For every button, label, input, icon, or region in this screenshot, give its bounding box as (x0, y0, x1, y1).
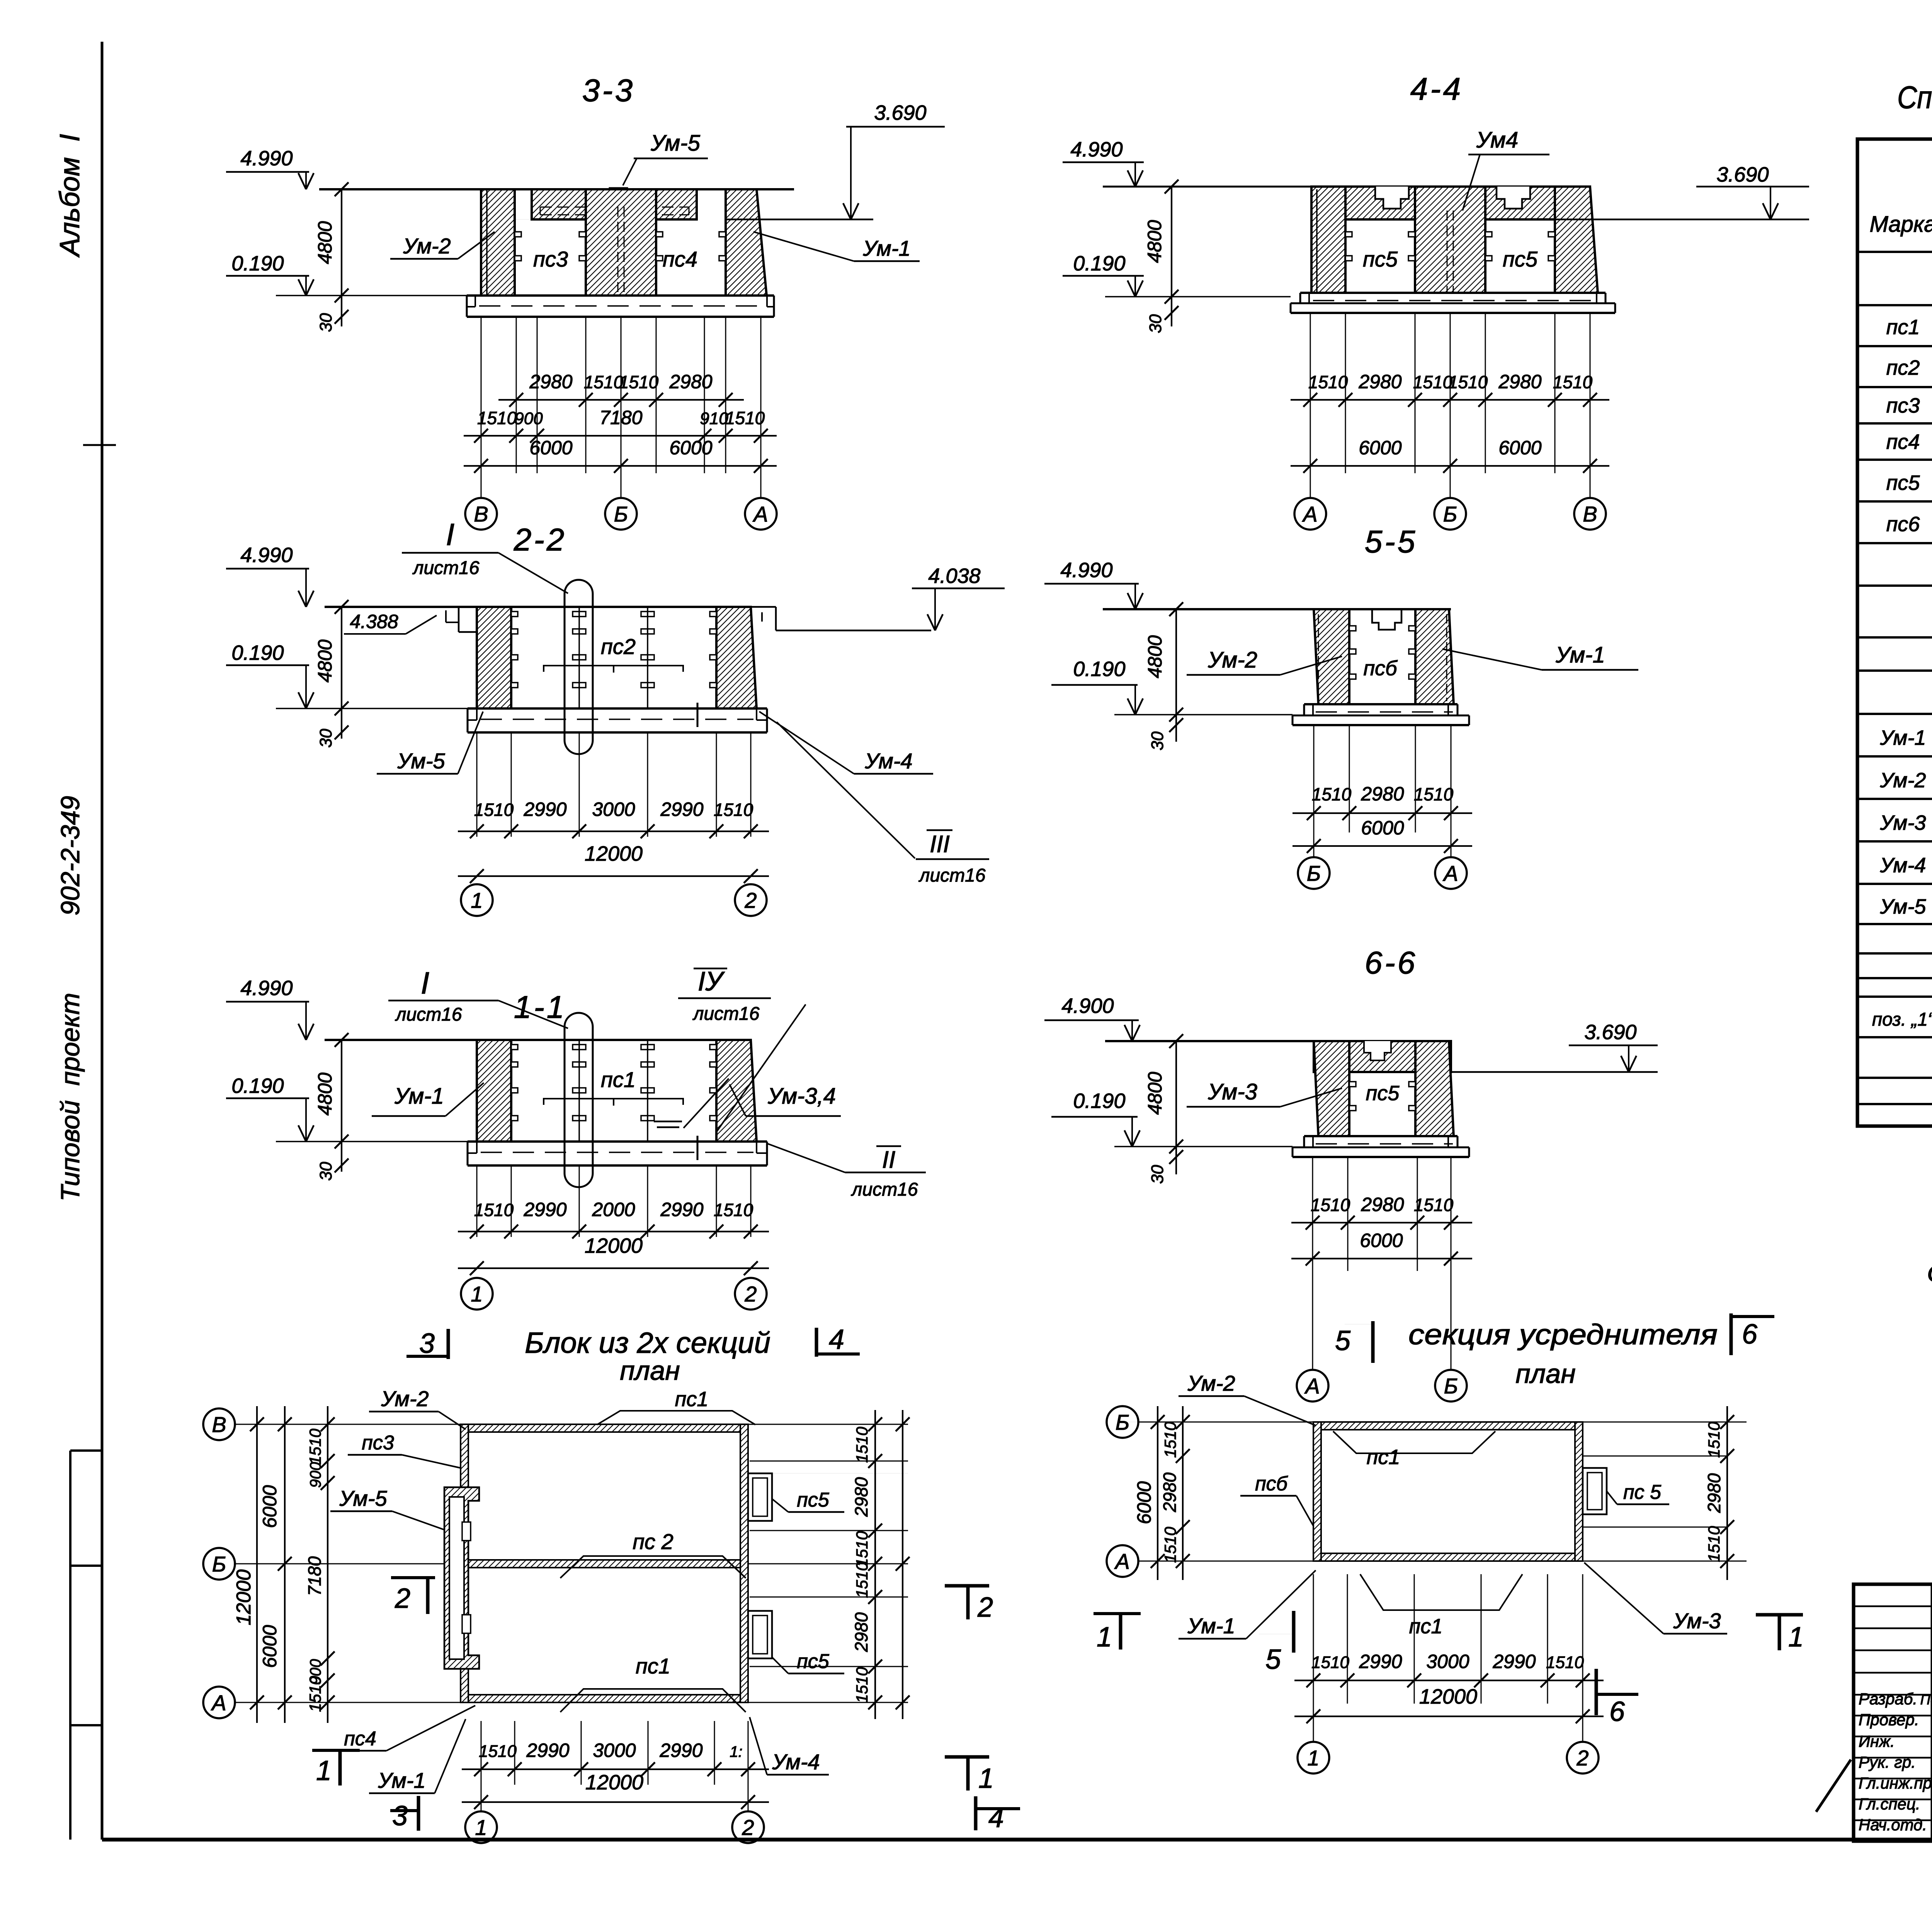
svg-text:В: В (212, 1412, 226, 1437)
svg-text:В: В (474, 502, 488, 526)
svg-text:2980: 2980 (1358, 371, 1401, 392)
section 6-6 right wall hatched trapezoid (1415, 1041, 1454, 1136)
axis circle V (plan 1) (203, 1408, 235, 1440)
svg-text:2000: 2000 (592, 1199, 635, 1220)
section mark T2 right (plan 1) (945, 1584, 989, 1588)
svg-text:6: 6 (1609, 1696, 1625, 1727)
svg-text:1510: 1510 (1161, 1422, 1179, 1458)
svg-text:1510: 1510 (1414, 1195, 1454, 1215)
svg-text:6000: 6000 (1361, 817, 1404, 839)
section 6-6 base slab (1304, 1135, 1458, 1137)
svg-text:2990: 2990 (660, 1199, 703, 1220)
svg-text:лист16: лист16 (850, 1179, 918, 1200)
section 3-3 top band dashed panel edge (540, 207, 689, 208)
axis circle V (4-4) (1574, 498, 1606, 530)
svg-text:лист16: лист16 (412, 558, 479, 578)
svg-text:1510: 1510 (1311, 1195, 1350, 1215)
section 4-4 dim chain 1510-2980-1510-1510-2980-1510 (1291, 399, 1609, 401)
svg-text:0.190: 0.190 (1073, 657, 1125, 681)
svg-text:Гл.спец.: Гл.спец. (1859, 1795, 1920, 1813)
plan 1 vertical dim 12000 left (256, 1406, 258, 1723)
svg-text:Ум-2: Ум-2 (1880, 769, 1926, 792)
svg-text:4.990: 4.990 (240, 977, 293, 1000)
plan 1 bottom wall ps1 hatched (468, 1695, 740, 1702)
svg-text:12000: 12000 (585, 1771, 643, 1794)
section 1-1 panel joints (578, 1040, 580, 1142)
section 1-1 left wall hatched (477, 1040, 511, 1142)
svg-text:6-6: 6-6 (1365, 945, 1418, 980)
plan 2 left wall hatched (1313, 1422, 1321, 1561)
svg-text:Гл.инж.пр.: Гл.инж.пр. (1859, 1774, 1932, 1792)
stray slash left of title block (1816, 1760, 1851, 1812)
svg-text:0.190: 0.190 (1073, 252, 1125, 275)
section 5-5 base slab (1304, 703, 1458, 705)
svg-text:5: 5 (1335, 1325, 1351, 1356)
svg-text:4.038: 4.038 (928, 564, 980, 588)
section 4-4 center wall hatched (1415, 187, 1485, 293)
svg-text:пс5: пс5 (1366, 1082, 1400, 1105)
svg-text:12000: 12000 (585, 1234, 643, 1257)
plan 2 right extension lines (1583, 1456, 1727, 1457)
svg-text:Ум-1: Ум-1 (378, 1768, 425, 1792)
section 6-6 extension lines below (1312, 1158, 1313, 1271)
svg-text:Ум-3,4: Ум-3,4 (767, 1084, 836, 1109)
svg-text:6000: 6000 (1359, 437, 1401, 459)
svg-text:пс3: пс3 (1886, 394, 1920, 417)
svg-text:план: план (620, 1356, 680, 1386)
section 1-1 capsule detail oval (565, 1013, 593, 1187)
axis circle A (4-4) (1294, 498, 1326, 530)
svg-text:Б: Б (614, 502, 628, 526)
section 2-2 panel tabs (511, 612, 518, 617)
svg-text:2980: 2980 (1361, 1194, 1404, 1215)
svg-text:2980: 2980 (1160, 1472, 1180, 1512)
vertical dim 4800 (3-3) (341, 189, 342, 296)
section 2-2 right wall hatched trapezoid (716, 607, 757, 708)
section 4-4 left wall hatched (1311, 187, 1345, 293)
svg-text:Ум-3: Ум-3 (1207, 1079, 1257, 1104)
section 1-1 ground line (276, 1141, 468, 1142)
svg-text:Марка: Марка (1869, 212, 1932, 237)
svg-text:2: 2 (395, 1583, 410, 1614)
svg-text:Б: Б (1443, 502, 1457, 526)
svg-text:3000: 3000 (592, 798, 635, 820)
svg-text:4800: 4800 (1144, 1072, 1166, 1114)
svg-text:2: 2 (1576, 1746, 1588, 1770)
svg-text:пс5: пс5 (1886, 471, 1920, 494)
svg-text:пс2: пс2 (1886, 356, 1920, 379)
svg-text:2980: 2980 (851, 1612, 871, 1652)
section mark T1 right (plan 1) (945, 1755, 989, 1759)
section 1-1 break mark (697, 1136, 699, 1160)
plan 2 right wall hatched (1575, 1422, 1583, 1561)
svg-text:1: 1 (1307, 1746, 1319, 1770)
svg-text:1510: 1510 (1413, 372, 1453, 392)
svg-text:7180: 7180 (304, 1556, 325, 1596)
svg-text:Ум-2: Ум-2 (381, 1386, 429, 1411)
svg-text:1510: 1510 (725, 408, 765, 428)
section 5-5 dim chain 1510-2980-1510 (1293, 812, 1472, 814)
svg-text:30: 30 (316, 313, 335, 332)
svg-text:пс5: пс5 (1503, 247, 1538, 271)
svg-text:пс3: пс3 (362, 1432, 394, 1454)
svg-text:2990: 2990 (659, 1740, 702, 1761)
svg-text:2: 2 (744, 888, 757, 912)
svg-text:1510: 1510 (619, 372, 659, 392)
svg-text:Блок из 2х секций: Блок из 2х секций (525, 1327, 770, 1359)
axis circle 2 (2-2) (735, 884, 767, 916)
section 3-3 dim chain 1510-900-7180-910-1510 (464, 435, 777, 437)
svg-text:3.690: 3.690 (874, 101, 926, 124)
svg-text:1510: 1510 (474, 800, 514, 820)
svg-text:30: 30 (1148, 731, 1167, 750)
section 3-3 extension lines below (481, 318, 482, 473)
svg-text:Б: Б (1444, 1374, 1458, 1398)
svg-text:1510: 1510 (1161, 1527, 1179, 1563)
section 4-4 top line (1103, 186, 1311, 188)
svg-text:900: 900 (307, 1462, 324, 1488)
svg-text:1: 1 (1097, 1622, 1112, 1653)
axis circle 2 (1-1) (735, 1278, 767, 1310)
svg-text:30: 30 (1146, 314, 1165, 333)
svg-text:Б: Б (1307, 861, 1321, 885)
left margin tick (83, 444, 116, 446)
section 4-4 body top band hatched (1311, 187, 1590, 219)
plan 1 axis line V (235, 1424, 906, 1425)
svg-text:0.190: 0.190 (1073, 1089, 1125, 1113)
section 2-2 left wall hatched (477, 607, 511, 708)
svg-text:А: А (1114, 1549, 1129, 1573)
svg-text:4.990: 4.990 (240, 544, 293, 567)
axis circle 1 (1-1) (461, 1278, 493, 1310)
svg-text:4800: 4800 (314, 221, 336, 264)
svg-text:3.690: 3.690 (1584, 1021, 1636, 1044)
plan 1 left chain 1510-900-7180-900-1510 (327, 1406, 328, 1723)
svg-text:Ум-3: Ум-3 (1673, 1609, 1721, 1633)
svg-text:IУ: IУ (698, 966, 725, 996)
axis circle A (3-3) (745, 498, 777, 530)
svg-text:Ум-1: Ум-1 (1555, 642, 1605, 668)
svg-text:12000: 12000 (585, 842, 643, 865)
svg-text:1: 1 (471, 888, 483, 912)
svg-text:0.190: 0.190 (231, 641, 284, 664)
svg-text:пс 2: пс 2 (633, 1529, 673, 1554)
axis circle 2 (plan 2) (1582, 1704, 1583, 1741)
section 4-4 center wall joint dashed (1447, 211, 1448, 292)
svg-text:2: 2 (977, 1592, 993, 1623)
plan 1 right chain ticks (874, 1410, 876, 1719)
axis circle B (3-3) (605, 498, 637, 530)
svg-text:1510: 1510 (1705, 1526, 1723, 1562)
svg-text:Ум-2: Ум-2 (403, 234, 451, 258)
svg-text:1:: 1: (730, 1743, 742, 1760)
section 1-1 top line (325, 1039, 751, 1041)
svg-text:1510: 1510 (1448, 372, 1488, 392)
section 2-2 break mark (697, 703, 699, 727)
svg-text:2980: 2980 (529, 371, 572, 392)
axis circle B (plan 2) (1107, 1406, 1138, 1438)
vertical dim 4800 (5-5) (1175, 609, 1177, 715)
svg-text:1510: 1510 (474, 1200, 514, 1220)
svg-text:4.900: 4.900 (1061, 994, 1114, 1018)
svg-text:Спецификация элементов к мар: Спецификация элементов к маркировочным с… (1897, 80, 1932, 115)
svg-text:4800: 4800 (1144, 220, 1165, 263)
svg-text:Ум-5: Ум-5 (397, 749, 445, 773)
section 4-4 top notch 2 (1497, 187, 1530, 209)
svg-text:2980: 2980 (669, 371, 712, 392)
svg-text:2980: 2980 (851, 1477, 871, 1517)
vertical dim 30 (1-1) (341, 1142, 342, 1172)
svg-text:4-4: 4-4 (1410, 71, 1463, 107)
svg-text:пс1: пс1 (1367, 1446, 1400, 1469)
plan 2 bottom extension lines (1313, 1574, 1314, 1704)
section 6-6 left wall hatched (1314, 1041, 1349, 1136)
svg-text:пс4: пс4 (663, 247, 697, 271)
svg-text:пс2: пс2 (601, 634, 636, 659)
spec table horizontal lines (1857, 251, 1932, 253)
section 2-2 capsule detail oval (565, 580, 593, 754)
svg-text:1: 1 (1788, 1622, 1804, 1653)
plan 1 axis line A (235, 1702, 906, 1703)
axis circle B (5-5) (1298, 857, 1330, 889)
svg-text:Ум-4: Ум-4 (1880, 854, 1926, 877)
svg-text:1510: 1510 (853, 1427, 871, 1463)
svg-text:4800: 4800 (314, 639, 336, 682)
svg-text:0.190: 0.190 (231, 1074, 284, 1097)
svg-text:1510: 1510 (1553, 372, 1593, 392)
svg-text:лист16: лист16 (692, 1004, 759, 1024)
axis circle 1 (plan 2) (1313, 1704, 1314, 1741)
plan 1 vertical dim 6000 6000 left (284, 1406, 286, 1723)
svg-text:6000: 6000 (259, 1625, 281, 1668)
section 3-3 top slab line (319, 188, 794, 190)
section 5-5 extension lines below (1313, 726, 1315, 832)
svg-text:1510: 1510 (853, 1667, 871, 1703)
section 4-4 base slab (1300, 292, 1605, 294)
plan 1 axis line B (235, 1563, 461, 1565)
svg-text:Ум4: Ум4 (1476, 127, 1518, 153)
section 3-3 panel tabs (515, 232, 521, 237)
svg-text:5: 5 (1265, 1644, 1281, 1675)
svg-text:1510: 1510 (1312, 784, 1352, 804)
svg-text:II: II (882, 1147, 895, 1173)
plan 2 right chain 1510-2980-1510 (1726, 1406, 1728, 1580)
axis circle A (plan 1) (203, 1687, 235, 1718)
axis circle A (plan 2) (1107, 1545, 1138, 1577)
svg-text:900: 900 (514, 409, 543, 428)
svg-text:Ум-1: Ум-1 (1880, 726, 1926, 749)
section 3-3 ground line 0.190 (276, 295, 467, 296)
svg-text:3000: 3000 (1426, 1651, 1469, 1672)
section 1-1 right wall hatched trapezoid (716, 1040, 757, 1142)
section 4-4 cells (1345, 219, 1415, 220)
svg-text:пс5: пс5 (1363, 247, 1398, 271)
svg-text:1510: 1510 (853, 1562, 871, 1598)
svg-text:Ум-1: Ум-1 (1187, 1614, 1235, 1638)
svg-text:0.190: 0.190 (231, 252, 284, 275)
svg-text:3-3: 3-3 (582, 73, 635, 108)
sheet bottom border line (102, 1838, 1932, 1842)
section 3-3 dim chain 2980-1510-1510-2980 (498, 399, 744, 401)
plan 1 bottom chain 1510-2990-3000-2990-1510 (462, 1769, 769, 1770)
section 1-1 dim 12000 (458, 1267, 769, 1269)
svg-text:пс5: пс5 (797, 1489, 830, 1511)
svg-text:2990: 2990 (660, 798, 703, 820)
section 4-4 right wall hatched trapezoid (1555, 187, 1598, 293)
svg-text:1510: 1510 (479, 1742, 517, 1761)
axis circle 1 (plan 1) (481, 1785, 482, 1811)
axis circle B (6-6) (1435, 1370, 1467, 1402)
plan 1 Um-5 channel element (444, 1487, 479, 1669)
section 2-2 ground line (276, 708, 468, 709)
plan 1 top wall ps1 hatched (468, 1424, 740, 1432)
svg-text:2990: 2990 (1492, 1651, 1536, 1672)
section 2-2 panel joints (578, 607, 580, 708)
svg-text:пс1: пс1 (601, 1067, 636, 1092)
section 4-4 dim 6000 6000 (1291, 465, 1609, 467)
svg-text:пс1: пс1 (636, 1654, 670, 1678)
svg-text:лист16: лист16 (918, 865, 985, 886)
section 4-4 panel tabs (1345, 232, 1352, 237)
plan 1 middle wall B hatched (468, 1560, 740, 1568)
svg-text:4.388: 4.388 (350, 611, 398, 632)
svg-text:30: 30 (316, 729, 335, 747)
plan 2 left chain 1510-2980-1510 (1182, 1406, 1184, 1580)
section 5-5 left wall hatched (1314, 609, 1349, 704)
svg-text:Альбом I: Альбом I (54, 134, 85, 258)
svg-text:пс1: пс1 (1886, 316, 1920, 339)
svg-text:пс4: пс4 (344, 1728, 376, 1750)
svg-text:секция усреднителя: секция усреднителя (1408, 1318, 1718, 1351)
section 2-2 base slab (468, 707, 767, 710)
svg-text:Ум-1: Ум-1 (394, 1084, 444, 1109)
plan 2 bottom wall hatched (1321, 1553, 1575, 1561)
svg-text:Ум-5: Ум-5 (339, 1486, 387, 1510)
svg-text:30: 30 (316, 1162, 335, 1181)
svg-text:6000: 6000 (1498, 437, 1541, 459)
svg-text:Нач.отд.: Нач.отд. (1859, 1816, 1927, 1834)
svg-text:6000: 6000 (259, 1485, 281, 1528)
svg-text:1510: 1510 (1308, 372, 1348, 392)
axis circle A (5-5) (1435, 857, 1467, 889)
vertical dim 30 (3-3) (341, 296, 342, 326)
svg-text:4800: 4800 (1144, 635, 1166, 678)
section mark T1 right (plan 2) (1756, 1613, 1803, 1617)
section 3-3 center wall hatched (586, 189, 656, 296)
section 5-5 top line (1103, 608, 1451, 610)
svg-text:Разраб.: Разраб. (1859, 1690, 1917, 1708)
plan 2 ps5 box right (1583, 1468, 1607, 1514)
axis circle 2 (plan 1) (748, 1785, 749, 1811)
plan 1 ps5 box top (748, 1473, 772, 1521)
svg-text:Ум-3: Ум-3 (1880, 811, 1926, 834)
svg-text:2980: 2980 (1498, 371, 1541, 392)
svg-text:Ум-5: Ум-5 (650, 131, 700, 156)
spec table outer border (1857, 139, 1932, 1126)
section 1-1 dim chain (458, 1231, 769, 1232)
plan 1 Um-5 channel notches (462, 1522, 471, 1541)
section 6-6 ground line (1114, 1146, 1293, 1147)
svg-text:пс3: пс3 (533, 247, 568, 271)
svg-text:902-2-349: 902-2-349 (56, 796, 85, 916)
svg-text:1510: 1510 (1546, 1653, 1584, 1672)
svg-text:В: В (1583, 502, 1597, 526)
svg-text:Ум-2: Ум-2 (1187, 1371, 1235, 1395)
svg-text:5-5: 5-5 (1365, 524, 1418, 559)
svg-text:2: 2 (744, 1282, 757, 1306)
section 5-5 panel tabs (1349, 626, 1356, 631)
svg-text:4: 4 (829, 1324, 844, 1355)
svg-text:лист16: лист16 (395, 1004, 462, 1025)
vertical dim 30 (5-5) (1175, 715, 1177, 742)
axis circle 1 (2-2) (461, 884, 493, 916)
section 3-3 left wall Um-2 hatched (481, 189, 515, 296)
svg-text:Типовой проект: Типовой проект (56, 993, 85, 1201)
svg-text:А: А (1304, 1374, 1320, 1398)
section 5-5 dim 6000 (1293, 845, 1472, 847)
svg-text:4.990: 4.990 (1070, 138, 1122, 161)
svg-text:Рук. гр.: Рук. гр. (1859, 1753, 1916, 1771)
vertical dim 30 (2-2) (341, 708, 342, 739)
section 2-2 dim chain (458, 831, 769, 832)
svg-text:6000: 6000 (529, 437, 572, 459)
section 2-2 top line (325, 606, 751, 608)
svg-text:1510: 1510 (477, 408, 517, 428)
svg-text:пс4: пс4 (1886, 430, 1920, 454)
section 6-6 dim chain 1510-2980-1510 (1291, 1222, 1472, 1223)
svg-text:1510: 1510 (306, 1676, 324, 1712)
vertical dim 4800 (1-1) (341, 1040, 342, 1142)
svg-text:6: 6 (1742, 1319, 1758, 1350)
svg-text:1: 1 (471, 1282, 483, 1306)
svg-text:поз. „1“: поз. „1“ (1872, 1009, 1932, 1030)
section 2-2 dim 12000 (458, 875, 769, 877)
svg-text:Совместно с данным см. л.л. К: Совместно с данным см. л.л. КЖ-16÷22 (1927, 1261, 1932, 1287)
svg-text:3: 3 (392, 1801, 408, 1831)
svg-text:пс 5: пс 5 (1623, 1481, 1662, 1503)
svg-text:2990: 2990 (523, 798, 566, 820)
svg-text:3: 3 (419, 1328, 435, 1359)
svg-text:пс6: пс6 (1886, 513, 1920, 536)
section 3-3 cell lines (515, 219, 586, 220)
svg-text:7180: 7180 (599, 407, 642, 428)
svg-text:6000: 6000 (669, 437, 712, 459)
section 1-1 small marks (654, 1121, 682, 1123)
svg-text:2980: 2980 (1361, 783, 1404, 805)
svg-text:Б: Б (1116, 1410, 1129, 1434)
svg-text:910: 910 (700, 409, 728, 428)
section mark 1 left (plan 2) (1094, 1612, 1141, 1615)
section 6-6 top notch (1364, 1041, 1391, 1060)
sheet left border line (101, 42, 104, 1840)
svg-text:Ум-1: Ум-1 (862, 236, 910, 260)
svg-text:12000: 12000 (233, 1570, 255, 1626)
svg-text:А: А (211, 1690, 226, 1715)
vertical dim 4800 (2-2) (341, 607, 342, 708)
section 1-1 panel tabs (511, 1045, 518, 1050)
section 3-3 top notch (610, 188, 627, 206)
section 3-3 center wall joint dashed (617, 207, 619, 296)
svg-text:Ум-5: Ум-5 (1880, 895, 1927, 918)
svg-text:1510: 1510 (1311, 1653, 1349, 1672)
title block outer border (1854, 1584, 1932, 1841)
svg-text:6000: 6000 (1360, 1230, 1403, 1251)
vertical dim 30 (4-4) (1171, 297, 1172, 326)
section 5-5 ground line (1114, 714, 1293, 715)
section 5-5 right wall hatched trapezoid (1415, 609, 1454, 704)
section 2-2 left top step 4.388 (458, 607, 460, 632)
svg-text:псб: псб (1363, 657, 1398, 680)
